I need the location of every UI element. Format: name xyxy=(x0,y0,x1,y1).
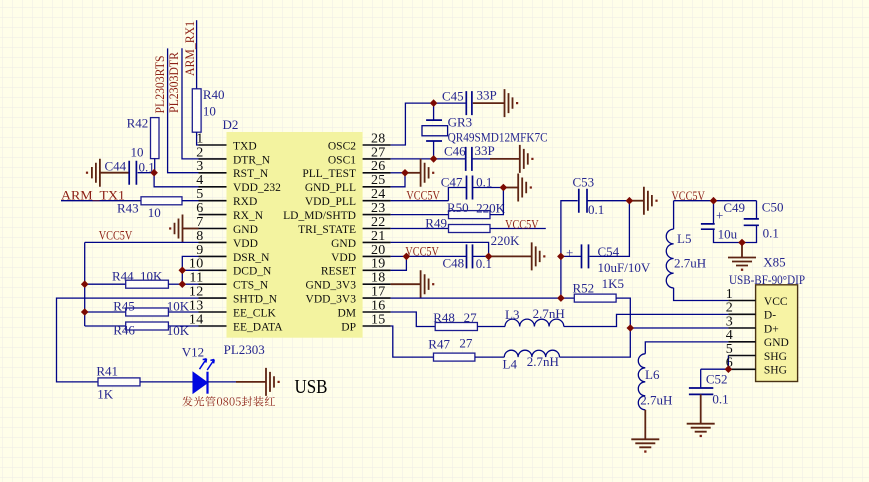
pin 11 stub xyxy=(199,283,227,285)
svg-text:R50: R50 xyxy=(447,200,469,215)
svg-text:OSC1: OSC1 xyxy=(328,154,356,166)
inductor L5 xyxy=(666,229,673,288)
svg-text:DCD_N: DCD_N xyxy=(233,266,272,278)
svg-text:10: 10 xyxy=(203,104,216,119)
wire L3 to D- xyxy=(564,314,729,326)
wire pin 22 to R49 xyxy=(391,228,449,230)
pin 24 stub xyxy=(363,200,391,202)
capacitor C44 plates xyxy=(129,161,136,185)
svg-text:RX_N: RX_N xyxy=(233,210,264,222)
svg-text:33P: 33P xyxy=(477,88,497,103)
svg-text:+: + xyxy=(566,245,573,260)
svg-text:25: 25 xyxy=(371,173,386,188)
wire C49 bottom xyxy=(714,229,743,242)
connector X85 body xyxy=(756,285,798,382)
svg-text:GND_3V3: GND_3V3 xyxy=(306,280,357,292)
ground at C45 xyxy=(505,89,513,117)
inductor L6 xyxy=(638,354,645,410)
net ARM_TX1 wire xyxy=(61,200,141,202)
svg-text:2.7uH: 2.7uH xyxy=(640,393,672,408)
svg-text:GND: GND xyxy=(233,224,258,236)
ground at L6 xyxy=(631,439,659,447)
ground stem at C49 C50 xyxy=(741,243,743,258)
capacitor C47 plates xyxy=(467,176,473,200)
capacitor C52 plates xyxy=(689,388,713,394)
inductor L3 xyxy=(505,319,564,326)
junction node at 560.9,256.4 xyxy=(557,253,565,261)
wire pin 24 VDD_PLL xyxy=(391,200,449,202)
junction node at 630.3,328 xyxy=(627,324,635,332)
label LED note chinese 发光管0805封装红 xyxy=(182,396,275,406)
svg-text:C44: C44 xyxy=(105,159,127,174)
svg-text:C50: C50 xyxy=(762,200,784,215)
wire VCC5V to pin 8 xyxy=(85,241,199,243)
svg-text:SHG: SHG xyxy=(764,351,787,363)
wire pin 25 to pin 26 xyxy=(391,173,405,187)
wire X85 pin 6 SHG xyxy=(701,368,729,370)
wire R49 to VCC5V xyxy=(490,228,546,230)
svg-text:GND: GND xyxy=(764,337,789,349)
IC D2 PL2303 body xyxy=(227,132,363,338)
svg-text:2.7nH: 2.7nH xyxy=(527,354,559,369)
junction node at 154.1,172.7 xyxy=(150,169,158,177)
svg-text:R45: R45 xyxy=(113,298,135,313)
svg-text:20: 20 xyxy=(371,243,386,258)
svg-text:0.1: 0.1 xyxy=(712,392,728,407)
wire pin 11 xyxy=(182,283,198,285)
svg-text:6: 6 xyxy=(196,201,203,216)
pin 12 stub xyxy=(199,297,227,299)
pin 5 stub xyxy=(199,200,227,202)
svg-text:VDD: VDD xyxy=(233,238,258,250)
wire C47 to ground xyxy=(473,187,504,189)
wire R45 to pin 13 xyxy=(168,311,198,313)
svg-text:10: 10 xyxy=(148,205,161,220)
svg-text:R48: R48 xyxy=(433,310,455,325)
pin 27 stub xyxy=(363,158,391,160)
ground at C49 C50 xyxy=(728,258,756,266)
wire C53 to ground xyxy=(587,200,629,202)
wire R44 to riser xyxy=(168,283,182,285)
wire ground to C44 xyxy=(100,172,129,174)
svg-text:ARM_TX1: ARM_TX1 xyxy=(61,187,125,202)
pin 25 stub xyxy=(363,186,391,188)
wire C46 to ground xyxy=(472,158,490,160)
svg-text:X85: X85 xyxy=(763,255,785,270)
junction node at 405,172.8 xyxy=(401,169,409,177)
svg-text:17: 17 xyxy=(371,285,386,300)
svg-text:RESET: RESET xyxy=(321,266,356,278)
ground at C47 xyxy=(518,174,526,202)
svg-text:R40: R40 xyxy=(203,87,225,102)
junction node at 503.4,187.5 xyxy=(500,184,508,192)
svg-text:22: 22 xyxy=(371,215,386,230)
svg-text:SHTD_N: SHTD_N xyxy=(233,294,278,306)
svg-text:L3: L3 xyxy=(505,307,519,322)
pin 3 stub xyxy=(199,172,227,174)
wire R47 to L4 xyxy=(475,356,504,358)
wire 3V3 rail riser xyxy=(561,201,578,298)
svg-text:TRI_STATE: TRI_STATE xyxy=(298,224,356,236)
junction node at 742,242.5 xyxy=(738,239,746,247)
wire L5 to X85 pin 1 xyxy=(674,288,729,301)
svg-text:10u: 10u xyxy=(718,227,738,242)
svg-text:RST_N: RST_N xyxy=(233,168,269,180)
wire pin 19 to pin 20 xyxy=(391,256,407,270)
wire riser pins 9-11 xyxy=(182,256,198,284)
junction node at 728.4,369.2 xyxy=(725,365,733,373)
svg-text:13: 13 xyxy=(189,298,204,313)
pin 16 stub xyxy=(363,311,391,313)
pin 28 stub xyxy=(363,144,391,146)
wire R50 to C47 ground node xyxy=(490,188,503,215)
junction node at 433.6,103.1 xyxy=(430,99,438,107)
resistor R48 body xyxy=(435,323,477,331)
wire VCC5V riser xyxy=(84,242,86,326)
svg-text:R49: R49 xyxy=(425,216,447,231)
svg-text:CTS_N: CTS_N xyxy=(233,280,269,292)
svg-text:16: 16 xyxy=(371,298,386,313)
wire pin 17 VDD_3V3 to R52 xyxy=(391,297,575,299)
resistor R47 body xyxy=(434,353,475,361)
svg-text:VCC5V: VCC5V xyxy=(99,228,133,243)
svg-text:VDD: VDD xyxy=(331,252,356,264)
svg-text:1: 1 xyxy=(726,287,733,302)
svg-text:VCC5V: VCC5V xyxy=(505,216,539,231)
wire C52 to ground xyxy=(700,394,702,423)
pin 6 stub xyxy=(199,214,227,216)
wire C47 riser xyxy=(448,188,466,201)
svg-text:24: 24 xyxy=(371,187,386,202)
svg-text:C53: C53 xyxy=(573,174,595,189)
svg-text:2.7uH: 2.7uH xyxy=(674,256,706,271)
svg-text:18: 18 xyxy=(371,271,386,286)
svg-text:USB: USB xyxy=(295,377,328,398)
pin 9 stub xyxy=(199,255,227,257)
wire VCC5V rail top right xyxy=(674,200,757,202)
svg-text:L4: L4 xyxy=(503,356,518,371)
svg-text:DP: DP xyxy=(341,321,356,333)
svg-text:QR49SMD12MFK7C: QR49SMD12MFK7C xyxy=(448,130,548,145)
svg-text:+: + xyxy=(716,208,723,223)
svg-text:PLL_TEST: PLL_TEST xyxy=(302,168,356,180)
svg-text:C46: C46 xyxy=(444,143,466,158)
wire C45 to ground xyxy=(473,102,505,104)
svg-text:ARM_RX1: ARM_RX1 xyxy=(182,21,197,76)
svg-text:VDD_3V3: VDD_3V3 xyxy=(306,294,357,306)
wire pin 26 to ground xyxy=(391,172,405,174)
svg-text:D+: D+ xyxy=(764,323,779,335)
resistor R45 body xyxy=(126,308,169,316)
LED V12 diode xyxy=(193,359,214,394)
X85 pin 5 stub xyxy=(728,355,755,357)
svg-text:DTR_N: DTR_N xyxy=(233,154,271,166)
svg-text:RXD: RXD xyxy=(233,196,257,208)
junction node at 84.7,312 xyxy=(81,308,89,316)
pin 23 stub xyxy=(363,214,391,216)
wire R40 to pin 1 xyxy=(197,132,199,145)
capacitor C45 plates xyxy=(466,91,472,115)
junction node at 182.3,284.2 xyxy=(179,280,187,288)
wire L5 top lead xyxy=(673,201,675,229)
wire C50 riser xyxy=(756,201,758,219)
svg-text:VDD_232: VDD_232 xyxy=(233,182,281,194)
junction node at 84.7,284.2 xyxy=(81,280,89,288)
svg-text:R47: R47 xyxy=(428,336,450,351)
wire R52 to D+ node xyxy=(616,298,630,328)
wire C48 to ground xyxy=(473,255,489,257)
wire ground to pin 7 xyxy=(183,228,199,230)
svg-text:5: 5 xyxy=(726,342,733,357)
X85 pin 1 stub xyxy=(728,300,755,302)
pin 10 stub xyxy=(199,269,227,271)
capacitor C48 plates xyxy=(467,244,473,268)
svg-text:EE_CLK: EE_CLK xyxy=(233,307,276,319)
wire pin 18 to ground xyxy=(391,283,421,285)
svg-text:220K: 220K xyxy=(491,233,520,248)
wire C50 bottom xyxy=(742,225,757,242)
crystal GR3 bottom lead xyxy=(433,141,435,159)
svg-text:R44: R44 xyxy=(112,269,134,284)
pin 17 stub xyxy=(363,297,391,299)
svg-text:D2: D2 xyxy=(223,117,239,132)
svg-text:21: 21 xyxy=(371,229,386,244)
resistor R52 body xyxy=(574,294,616,302)
svg-text:28: 28 xyxy=(371,131,386,146)
pin 15 stub xyxy=(363,325,391,327)
svg-text:C48: C48 xyxy=(443,256,465,271)
svg-text:PL2303RTS: PL2303RTS xyxy=(152,56,167,114)
wire C52 riser xyxy=(700,369,702,388)
svg-text:9: 9 xyxy=(196,243,203,258)
X85 pin 2 stub xyxy=(728,313,755,315)
wire C44 to node xyxy=(138,172,155,174)
svg-text:PL2303: PL2303 xyxy=(224,342,265,357)
net PL2303DTR wire xyxy=(182,48,199,159)
wire L6 to ground xyxy=(644,410,646,439)
pin 22 stub xyxy=(363,228,391,230)
svg-text:10: 10 xyxy=(131,145,144,160)
pin 2 stub xyxy=(199,158,227,160)
resistor R49 body xyxy=(449,225,491,233)
svg-text:27: 27 xyxy=(459,336,473,351)
resistor R41 body xyxy=(98,378,140,386)
wire D+ to X85 xyxy=(630,327,728,329)
svg-text:2: 2 xyxy=(196,145,203,160)
pin 8 stub xyxy=(199,241,227,243)
svg-text:10uF/10V: 10uF/10V xyxy=(598,260,651,275)
svg-text:2.7nH: 2.7nH xyxy=(533,306,565,321)
wire R48 to L3 xyxy=(477,326,505,328)
wire pin 27 OSC1 row xyxy=(391,158,466,160)
pin 21 stub xyxy=(363,241,391,243)
ground at LED xyxy=(266,368,274,396)
X85 pin 4 stub xyxy=(728,341,755,343)
svg-text:1: 1 xyxy=(196,131,203,146)
wire SHTD_N to R41 xyxy=(57,298,199,382)
wire pin 21 GND jog xyxy=(391,242,489,256)
ground at pin 26 xyxy=(421,159,429,187)
svg-text:4: 4 xyxy=(196,173,203,188)
svg-text:3: 3 xyxy=(726,314,733,329)
svg-text:0.1: 0.1 xyxy=(588,202,604,217)
wire L4 to D+ node xyxy=(560,328,631,357)
resistor R44 body xyxy=(126,280,169,288)
svg-text:10: 10 xyxy=(189,257,204,272)
ground at C52 xyxy=(687,424,715,432)
svg-text:VDD_PLL: VDD_PLL xyxy=(305,196,356,208)
svg-text:LD_MD/SHTD: LD_MD/SHTD xyxy=(283,210,356,222)
wire pin 23 to R50 xyxy=(391,214,449,216)
svg-text:R42: R42 xyxy=(127,116,149,131)
pin 20 stub xyxy=(363,255,391,257)
svg-text:R43: R43 xyxy=(117,201,139,216)
svg-text:220K: 220K xyxy=(476,200,506,215)
svg-text:10K: 10K xyxy=(167,323,190,338)
resistor R42 body xyxy=(151,118,160,159)
svg-text:C49: C49 xyxy=(723,200,745,215)
svg-text:TXD: TXD xyxy=(233,140,257,152)
svg-text:11: 11 xyxy=(189,271,203,286)
svg-text:10K: 10K xyxy=(140,269,163,284)
svg-text:10K: 10K xyxy=(167,298,190,313)
svg-text:VCC: VCC xyxy=(764,296,788,308)
svg-text:L5: L5 xyxy=(677,231,691,246)
svg-text:3: 3 xyxy=(196,159,203,174)
svg-text:EE_DATA: EE_DATA xyxy=(233,321,283,333)
wire to R45 xyxy=(85,311,126,313)
junction node at 560.9,298.1 xyxy=(557,294,565,302)
svg-text:C45: C45 xyxy=(442,89,464,104)
svg-text:8: 8 xyxy=(196,229,203,244)
wire R46 to pin 14 xyxy=(168,325,198,327)
ground at C44 xyxy=(92,159,100,187)
net PL2303RTS wire xyxy=(168,48,199,172)
crystal GR3 top lead xyxy=(433,103,435,120)
wire to R46 xyxy=(85,325,126,327)
svg-text:R41: R41 xyxy=(96,363,118,378)
wire X85 pin 5 jog xyxy=(727,355,729,369)
net ARM_RX1 wire xyxy=(196,20,198,89)
wire R41 to LED xyxy=(140,381,193,383)
X85 pin 3 stub xyxy=(728,327,755,329)
pin 13 stub xyxy=(199,311,227,313)
svg-text:GND_PLL: GND_PLL xyxy=(305,182,356,194)
pin 7 stub xyxy=(199,228,227,230)
svg-text:R46: R46 xyxy=(113,323,135,338)
svg-text:DSR_N: DSR_N xyxy=(233,252,270,264)
junction node at 713.5,200.7 xyxy=(710,197,718,205)
capacitor C54 electrolytic plates xyxy=(582,244,589,268)
svg-text:23: 23 xyxy=(371,201,386,216)
svg-text:5: 5 xyxy=(196,187,203,202)
svg-text:V12: V12 xyxy=(182,345,204,360)
junction node at 406.4,256.4 xyxy=(403,253,411,261)
svg-text:12: 12 xyxy=(189,285,204,300)
resistor R40 body xyxy=(192,89,201,132)
pin 1 stub xyxy=(199,144,227,146)
capacitor C53 plates xyxy=(579,189,587,213)
wire pin 10 xyxy=(182,269,198,271)
svg-text:PL2303DTR: PL2303DTR xyxy=(166,52,181,113)
svg-text:C47: C47 xyxy=(441,174,463,189)
wire node to pin 4 xyxy=(154,173,198,187)
capacitor C46 plates xyxy=(466,147,472,171)
inductor L4 xyxy=(504,350,559,357)
svg-text:15: 15 xyxy=(371,312,386,327)
svg-text:L6: L6 xyxy=(645,367,660,382)
wire pin 15 DP jog down xyxy=(391,326,434,357)
svg-text:SHG: SHG xyxy=(764,365,787,377)
svg-text:1K: 1K xyxy=(97,387,114,402)
pin 4 stub xyxy=(199,186,227,188)
pin 26 stub xyxy=(363,172,391,174)
svg-text:C52: C52 xyxy=(706,372,728,387)
X85 pin 6 stub xyxy=(728,368,755,370)
svg-text:19: 19 xyxy=(371,257,386,272)
svg-text:DM: DM xyxy=(337,307,356,319)
capacitor C49 electrolytic plates xyxy=(701,224,715,229)
crystal GR3 plates and body xyxy=(426,120,442,141)
junction node at 433.6,158.9 xyxy=(430,155,438,163)
wire C54 left xyxy=(561,255,582,257)
ground at C53 xyxy=(644,187,652,215)
wire to R44 xyxy=(85,283,126,285)
svg-text:27: 27 xyxy=(464,310,478,325)
svg-text:0.1: 0.1 xyxy=(763,226,779,241)
ground at pin 7 xyxy=(175,215,183,243)
pin 18 stub xyxy=(363,283,391,285)
resistor R43 body xyxy=(141,197,182,205)
svg-text:GR3: GR3 xyxy=(448,115,473,130)
ground at C48 xyxy=(532,242,540,270)
capacitor C50 plates xyxy=(744,219,759,225)
wire R43 to pin 5 xyxy=(182,200,199,202)
svg-text:R52: R52 xyxy=(573,280,595,295)
pin 14 stub xyxy=(199,325,227,327)
svg-text:C54: C54 xyxy=(598,244,620,259)
svg-text:1K5: 1K5 xyxy=(602,276,624,291)
wire pin 16 DM jog down xyxy=(391,312,436,327)
wire LED to ground xyxy=(208,381,237,383)
resistor R46 body xyxy=(126,322,169,330)
wire pin 28 to crystal top xyxy=(391,103,467,145)
ground at C46 xyxy=(520,145,528,173)
wire X85 pin 4 GND to L6 xyxy=(645,342,728,354)
junction node at 182.3,270.3 xyxy=(179,267,187,275)
svg-text:27: 27 xyxy=(371,145,386,160)
pin 19 stub xyxy=(363,269,391,271)
svg-text:GND: GND xyxy=(331,238,356,250)
ground at pin 18 xyxy=(421,270,429,298)
svg-text:26: 26 xyxy=(371,159,386,174)
resistor R50 body xyxy=(449,211,491,219)
svg-text:14: 14 xyxy=(189,312,204,327)
wire R42 to node xyxy=(154,159,156,173)
svg-text:OSC2: OSC2 xyxy=(328,140,356,152)
svg-text:33P: 33P xyxy=(475,143,495,158)
wire C49 riser xyxy=(713,201,715,224)
wire pin 20 to C48 xyxy=(391,255,467,257)
wire C53 node to C54 xyxy=(589,201,629,257)
svg-text:D-: D- xyxy=(764,310,776,322)
junction node at 629.4,200.7 xyxy=(626,197,634,205)
junction node at 488.6,256.4 xyxy=(485,253,493,261)
